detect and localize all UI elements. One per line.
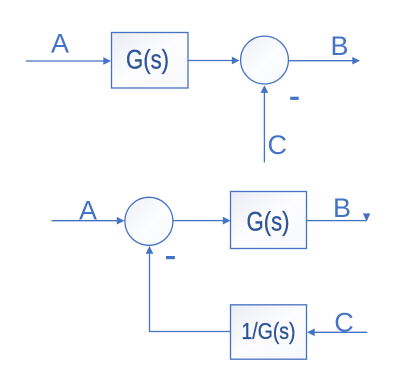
- summing junction (bottom diagram): [125, 197, 173, 245]
- wire: G(s) output to summing junction (top diagram): [188, 57, 240, 65]
- minus sign at summing junction (top diagram): [290, 97, 299, 100]
- wire: C input arrow into summing junction (top diagram): [261, 85, 269, 162]
- svg-text:A: A: [51, 29, 69, 59]
- svg-text:G(s): G(s): [126, 45, 169, 75]
- svg-text:B: B: [330, 31, 348, 61]
- svg-text:C: C: [268, 130, 288, 160]
- svg-text:G(s): G(s): [247, 207, 290, 237]
- summing junction (top diagram): [241, 36, 289, 84]
- wire: output B line with down arrowhead (bottom diagram): [307, 213, 371, 221]
- block G(s) (bottom diagram): [231, 192, 307, 249]
- wire: input A arrow into summing junction (bottom diagram): [52, 217, 125, 225]
- wire: summing junction to block G(s) (bottom diagram): [173, 217, 230, 225]
- svg-text:A: A: [79, 196, 97, 226]
- wire: C input arrow into 1/G(s) (bottom diagram): [307, 328, 367, 336]
- block G(s) (top diagram): [112, 33, 189, 89]
- block 1/G(s) (bottom diagram): [231, 305, 307, 359]
- minus sign at summing junction (bottom diagram): [166, 256, 175, 259]
- wire: input A arrow into block G(s) (top diagram): [26, 57, 111, 65]
- wire: feedback path from 1/G(s) to summing junction (bottom diagram): [146, 246, 231, 332]
- svg-text:B: B: [333, 193, 351, 223]
- wire: output B arrow (top diagram): [289, 57, 360, 65]
- svg-text:C: C: [334, 308, 354, 338]
- svg-text:1/G(s): 1/G(s): [242, 318, 296, 344]
